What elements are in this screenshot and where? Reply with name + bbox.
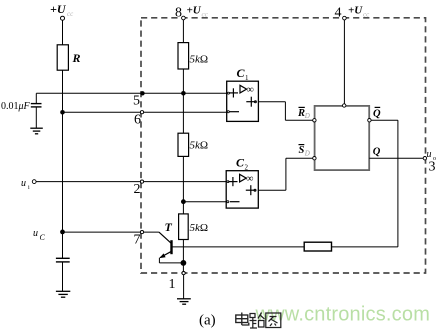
comparator C2 [226,156,258,209]
label Q output [373,146,381,157]
pin 8 terminal +Ucc [175,5,209,21]
svg-text:7: 7 [134,233,141,248]
wire supply to R [62,20,64,45]
ground (0.01uF) [30,128,43,134]
resistor R [57,45,80,70]
pin 5 terminal [133,91,145,108]
svg-text:3: 3 [429,160,436,175]
wire divider rail [182,69,184,133]
svg-text:5kΩ: 5kΩ [190,54,209,66]
svg-text:4: 4 [335,6,342,21]
pin 4 terminal +Ucc [335,5,371,21]
wire C1 output to RD [258,102,313,121]
comparator C1 [227,66,259,121]
svg-text:S: S [299,145,305,156]
resistor 5k (bottom) [179,214,208,240]
svg-text:+U: +U [50,2,67,16]
node emitter junction [181,260,187,266]
pin 6 terminal [134,111,144,128]
terminal ui input [21,178,36,191]
svg-text:5kΩ: 5kΩ [190,140,209,152]
ground (pin 1) [177,299,191,304]
svg-text:D: D [304,112,310,120]
svg-text:0.01μF: 0.01μF [1,101,31,112]
terminal +Ucc (left supply) [50,2,74,20]
wire Qbar feedback [332,120,398,247]
svg-text:5: 5 [133,94,140,109]
svg-text:∞: ∞ [247,85,254,96]
svg-text:u: u [33,228,38,239]
wire divider rail 3 [182,240,184,273]
wire emitter to ground rail [159,258,183,263]
svg-text:5kΩ: 5kΩ [190,222,209,234]
label SD input [299,145,310,158]
svg-text:R: R [72,51,81,65]
node uC junction [60,230,65,235]
svg-text:1: 1 [169,277,176,292]
wire base line [172,246,305,248]
pin 1 terminal [169,272,186,293]
wire Q to pin3 [369,157,423,159]
svg-text:u: u [427,149,432,160]
svg-text:+U: +U [348,5,363,17]
ground (timing cap) [56,291,70,297]
svg-text:Q: Q [373,146,381,157]
label uC [33,228,46,242]
svg-text:+U: +U [187,5,202,17]
wire pin4 to flip-flop [343,20,345,104]
svg-text:(a): (a) [199,313,216,329]
node pin6 junction [60,110,65,115]
svg-text:T: T [165,220,173,234]
pin 2 terminal [134,180,144,197]
svg-text:cc: cc [363,11,370,19]
label Qbar output [373,107,381,119]
svg-text:u: u [21,178,26,189]
IC dashed boundary box [141,18,426,273]
wire pin8 to divider [182,20,184,43]
wire pin2 line [36,181,226,183]
node pin5 / divider [181,91,186,96]
capacitor C (timing) [56,258,70,291]
caption dian (electric) [236,313,249,326]
node divider B [181,199,186,204]
resistor (base feedback) [304,242,331,251]
wire left rail [62,70,64,258]
pin 3 terminal uo [423,149,436,175]
svg-text:C: C [40,233,46,242]
svg-text:∞: ∞ [246,174,253,185]
resistor 5k (middle) [178,133,208,156]
wire node B to C2 [183,201,226,203]
svg-text:2: 2 [134,182,141,197]
caption tu (figure) [266,313,281,328]
svg-text:Q: Q [373,109,381,120]
wire C2 output to SD [258,158,313,190]
wire pin7 line [63,231,159,233]
resistor 5k (top) [178,43,208,69]
svg-text:cc: cc [67,10,74,18]
svg-text:D: D [304,149,310,157]
wire divider rail 2 [182,156,184,214]
svg-text:cc: cc [202,11,209,19]
svg-text:6: 6 [134,113,141,128]
pin 7 terminal [134,231,144,248]
capacitor 0.01uF [31,93,42,128]
wire pin6 line [63,111,227,113]
flip-flop (RS latch) [313,104,371,170]
wire pin1 to ground [183,275,185,299]
wire pin5 line [36,92,226,94]
watermark [255,304,431,326]
svg-text:8: 8 [175,6,182,21]
label 0.01uF [1,101,31,112]
caption (a) [199,313,216,329]
label RD input [297,107,310,120]
caption lu (road) [250,313,265,329]
transistor T [159,220,173,258]
